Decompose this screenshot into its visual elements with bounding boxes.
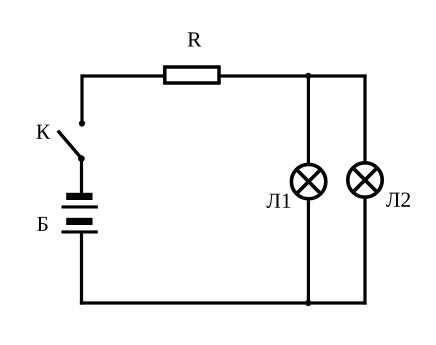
wire: top horizontal from left corner to resistor [81, 74, 167, 77]
wire: lamp L1 branch upper [307, 76, 310, 165]
wire: bottom horizontal [80, 301, 367, 304]
wire: battery to bottom-left corner [80, 233, 83, 305]
wire: left vertical from top corner to switch [80, 74, 83, 123]
label L2 [386, 192, 410, 206]
battery B: cell 1 positive plate (long thin) [62, 205, 98, 208]
wire: lamp L1 branch lower [307, 198, 310, 303]
lamp L2 cross stroke 1 [353, 168, 377, 192]
resistor R [165, 67, 219, 83]
lamp L1 cross stroke 2 [296, 169, 320, 193]
wire: switch to battery [80, 159, 83, 194]
switch K: fixed contact dot [79, 120, 85, 126]
lamp L1 cross stroke 1 [296, 169, 320, 193]
label B [37, 217, 47, 231]
wire: top horizontal from resistor to top-right corner [218, 74, 367, 77]
lamp L1 bulb circle [291, 164, 325, 198]
wire: lamp L2 branch lower [363, 197, 366, 305]
label R [188, 32, 202, 46]
wire: lamp L2 branch upper [363, 74, 366, 164]
lamp L2 bulb circle [348, 163, 382, 197]
switch K: moving contact dot [78, 155, 85, 162]
node: bottom junction at lamp L1 branch [305, 300, 311, 306]
node: top junction at lamp L1 branch [305, 73, 311, 79]
label K [36, 125, 50, 139]
label L1 [267, 194, 291, 208]
lamp L2 cross stroke 2 [353, 168, 377, 192]
battery B: cell 2 positive plate (long thin) [62, 230, 98, 233]
switch K: lever arm [58, 131, 82, 159]
battery B: cell 2 negative plate (short thick) [66, 218, 92, 225]
battery B: cell 1 negative plate (short thick) [66, 193, 92, 200]
